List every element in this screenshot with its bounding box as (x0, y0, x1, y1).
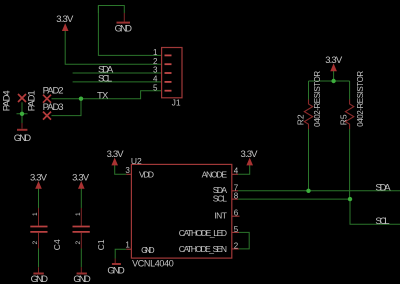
svg-text:4: 4 (153, 75, 158, 84)
svg-text:GND: GND (141, 245, 155, 255)
svg-text:SCL: SCL (98, 73, 112, 84)
svg-text:5: 5 (234, 225, 239, 234)
svg-text:VDD: VDD (139, 169, 154, 179)
svg-text:SCL: SCL (375, 216, 389, 227)
svg-text:R2: R2 (295, 114, 305, 125)
svg-text:3: 3 (125, 166, 130, 175)
svg-text:8: 8 (234, 192, 239, 201)
svg-text:CATHODE_LED: CATHODE_LED (179, 228, 227, 238)
svg-text:ANODE: ANODE (202, 169, 228, 179)
svg-text:GND: GND (14, 133, 32, 144)
svg-text:CATHODE_SEN: CATHODE_SEN (179, 244, 227, 254)
svg-text:3.3V: 3.3V (241, 149, 259, 160)
svg-text:4: 4 (234, 167, 239, 176)
svg-text:2: 2 (75, 241, 82, 245)
svg-text:C4: C4 (52, 239, 62, 250)
svg-text:0402-RESISTOR: 0402-RESISTOR (356, 71, 365, 127)
svg-text:1: 1 (75, 212, 82, 216)
svg-text:PAD3: PAD3 (43, 102, 64, 113)
svg-text:C1: C1 (96, 239, 106, 250)
svg-text:0402-RESISTOR: 0402-RESISTOR (313, 71, 322, 127)
svg-text:3.3V: 3.3V (107, 149, 125, 160)
svg-text:1: 1 (125, 241, 130, 250)
svg-text:3.3V: 3.3V (72, 173, 90, 184)
svg-text:1: 1 (153, 48, 158, 57)
svg-text:TX: TX (97, 90, 109, 101)
svg-text:SDA: SDA (375, 182, 391, 193)
svg-text:3.3V: 3.3V (30, 173, 48, 184)
svg-text:6: 6 (234, 209, 239, 218)
svg-text:5: 5 (153, 83, 158, 92)
svg-text:3.3V: 3.3V (56, 14, 74, 25)
svg-text:1: 1 (32, 212, 39, 216)
svg-text:GND: GND (115, 24, 133, 35)
svg-text:VCNL4040: VCNL4040 (132, 259, 174, 269)
svg-text:2: 2 (32, 241, 39, 245)
svg-text:INT: INT (214, 211, 227, 221)
svg-text:2: 2 (153, 57, 158, 66)
svg-text:SCL: SCL (213, 194, 227, 204)
svg-text:R5: R5 (338, 114, 348, 125)
svg-text:2: 2 (234, 241, 239, 250)
svg-text:PAD1: PAD1 (26, 90, 37, 111)
svg-text:PAD2: PAD2 (43, 85, 64, 96)
svg-text:3: 3 (153, 66, 158, 75)
svg-text:3.3V: 3.3V (325, 55, 343, 66)
svg-text:GND: GND (31, 274, 49, 284)
svg-text:GND: GND (107, 266, 125, 277)
svg-text:GND: GND (73, 274, 91, 284)
svg-text:PAD4: PAD4 (1, 90, 12, 111)
svg-text:U2: U2 (131, 156, 142, 166)
svg-text:J1: J1 (172, 98, 181, 108)
